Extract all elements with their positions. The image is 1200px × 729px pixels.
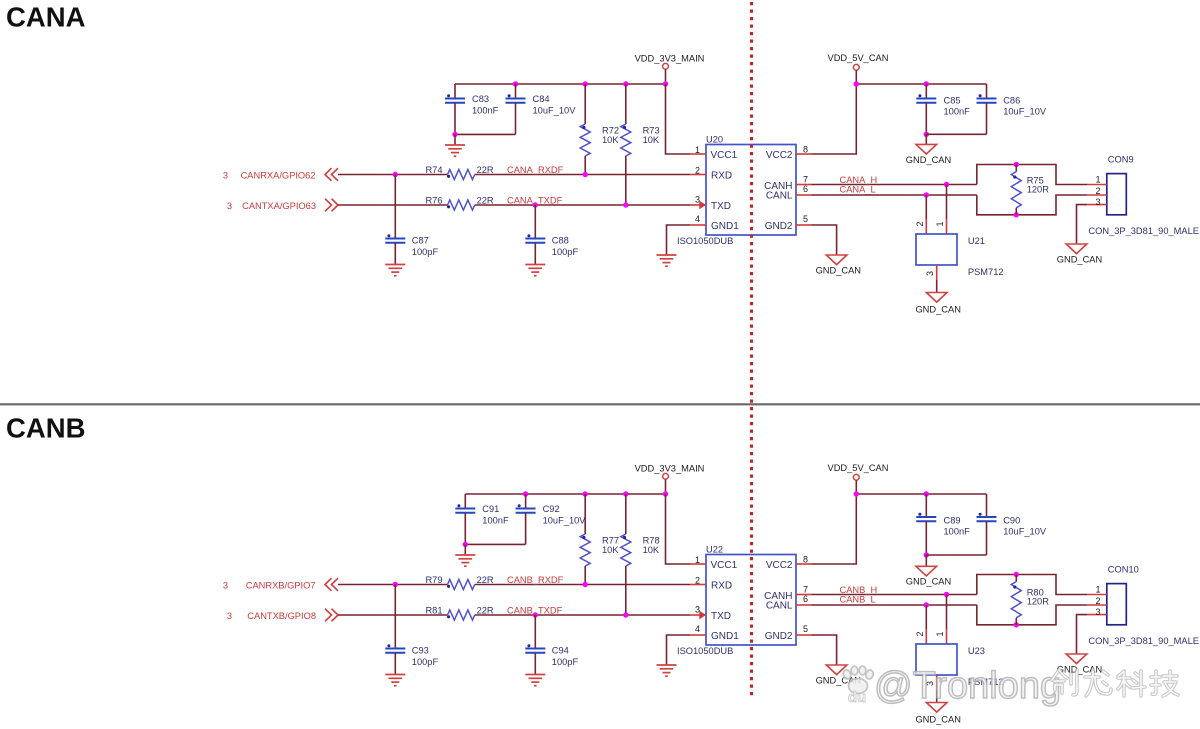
ground (earth) under C88 [525,265,545,276]
svg-text:6: 6 [803,184,808,194]
wire VCC2 to 5V rail [812,84,857,154]
capacitor C91 [455,494,509,544]
svg-text:VDD_5V_CAN: VDD_5V_CAN [828,463,889,473]
resistor R72 10K [580,84,619,175]
svg-text:CANTXB/GPIO8: CANTXB/GPIO8 [247,611,316,621]
U22 pin 2 [690,576,706,586]
svg-text:C86: C86 [1003,95,1020,105]
transient suppressor U23 PSM712 body [916,644,1004,687]
U22 pin 6 [796,594,812,605]
capacitor C85 [916,84,970,137]
wire net CANA_L [812,192,977,197]
svg-text:CANA_TXDF: CANA_TXDF [507,195,563,205]
svg-text:1: 1 [695,555,700,565]
svg-text:C90: C90 [1003,516,1020,526]
op-amp/IC U22 ISO1050DUB body [677,545,796,657]
svg-text:1: 1 [935,631,945,636]
svg-text:100pF: 100pF [412,247,439,257]
off-page flag CANRXA/GPIO62 [223,168,338,181]
wire VDD to VCC1 pin [666,494,691,564]
svg-text:3: 3 [223,580,228,590]
svg-text:7: 7 [803,585,808,595]
ground (earth) at U22 GND1 [657,665,677,676]
wire net CANB_RXDF [338,582,690,587]
svg-text:7: 7 [803,175,808,185]
wire CANA_H loop to connector pin 1 [977,162,1087,185]
ground (earth) under C83 [445,134,465,156]
svg-text:CANB_TXDF: CANB_TXDF [507,605,563,615]
svg-text:@Tronlong: @Tronlong [874,665,1061,707]
U22 pin 4 [690,624,706,635]
svg-text:10K: 10K [643,545,660,555]
svg-text:2: 2 [915,631,925,636]
svg-text:3: 3 [1095,607,1100,617]
svg-text:CANB_H: CANB_H [840,585,878,595]
svg-text:3: 3 [223,170,228,180]
svg-text:100nF: 100nF [944,106,971,116]
svg-text:U21: U21 [968,236,985,246]
U20 pin 2 [690,166,706,176]
svg-text:GND_CAN: GND_CAN [915,305,960,315]
svg-text:CANB_L: CANB_L [840,595,876,605]
svg-text:R81: R81 [425,606,442,616]
wire net CANA_RXDF [338,172,690,177]
net label CANA_H [840,175,878,185]
svg-text:CANL: CANL [766,601,793,612]
op-amp/IC U20 ISO1050DUB body [677,135,796,247]
resistor R80 120R [1011,575,1049,625]
svg-text:22R: 22R [477,196,494,206]
svg-text:10uF_10V: 10uF_10V [543,515,587,525]
svg-text:VDD_5V_CAN: VDD_5V_CAN [828,53,889,63]
ground (earth) under C94 [525,675,545,686]
resistor R73 10K [621,84,660,205]
svg-text:100nF: 100nF [472,105,499,115]
svg-text:3: 3 [227,611,232,621]
svg-text:2: 2 [1095,596,1100,606]
wire CANB_H loop to connector pin 1 [977,572,1087,595]
svg-text:5: 5 [803,214,808,224]
wire net CANB_L [812,602,977,607]
svg-text:100nF: 100nF [944,527,971,537]
svg-text:CANRXA/GPIO62: CANRXA/GPIO62 [241,170,316,180]
svg-text:CANA_H: CANA_H [840,175,878,185]
svg-text:R74: R74 [425,165,442,175]
svg-text:C93: C93 [412,646,429,656]
off-page flag CANTXB/GPIO8 [227,609,338,622]
svg-text:GND1: GND1 [711,221,739,232]
ground GND_CAN at U20 GND2 [816,255,861,276]
wire net CANB_H [812,592,977,597]
svg-text:8: 8 [803,145,808,155]
wire CANA_L to U21 pin 2 [915,195,927,234]
net label CANA_RXDF [507,165,564,175]
capacitor C92 [463,494,587,547]
net label CANB_L [840,595,876,605]
off-page flag CANTXA/GPIO63 [227,199,338,212]
capacitor C94 100pF [525,615,578,675]
svg-text:RXD: RXD [711,171,732,182]
svg-text:R76: R76 [425,196,442,206]
capacitor C83 [445,84,499,134]
section title CANB [6,413,85,444]
svg-text:CON9: CON9 [1108,155,1134,165]
wire GND1 to ground [667,635,691,665]
resistor R78 10K [621,494,660,615]
U21 pin 3 to GND_CAN [925,265,937,293]
section divider line [0,403,1200,405]
net label CANA_TXDF [507,195,563,205]
svg-text:GND2: GND2 [765,631,793,642]
off-page flag CANRXB/GPIO7 [223,578,338,591]
U20 pin 7 [796,175,812,185]
svg-text:22R: 22R [477,606,494,616]
svg-text:22R: 22R [477,575,494,585]
connector CON10 body [1107,565,1139,625]
U20 pin 4 [690,214,706,225]
wire 5V rail [854,81,987,86]
U20 pin 6 [796,184,812,195]
svg-text:CON_3P_3D81_90_MALE: CON_3P_3D81_90_MALE [1088,636,1199,646]
U20 pin names [711,150,793,232]
svg-text:3: 3 [695,195,700,205]
svg-text:3: 3 [1095,197,1100,207]
svg-text:2: 2 [695,166,700,176]
U22 pin 1 [690,555,706,565]
svg-text:R77: R77 [602,535,619,545]
svg-text:1: 1 [1095,585,1100,595]
svg-text:ISO1050DUB: ISO1050DUB [677,236,733,246]
svg-text:GND1: GND1 [711,631,739,642]
svg-text:CANTXA/GPIO63: CANTXA/GPIO63 [242,201,316,211]
svg-text:2: 2 [695,576,700,586]
net label CANB_RXDF [507,575,564,585]
power symbol VDD_5V_CAN (CANB) [828,463,889,494]
svg-text:VCC2: VCC2 [766,150,793,161]
svg-text:GND_CAN: GND_CAN [1057,255,1102,265]
U22 pin 5 [796,624,812,635]
wire 5V rail [854,491,987,496]
svg-text:C89: C89 [944,516,961,526]
ground GND_CAN at CON9 pin 3 [1057,244,1102,265]
svg-text:U20: U20 [706,135,723,145]
ground (earth) at U20 GND1 [657,255,677,266]
svg-text:U23: U23 [968,646,985,656]
U22 pin 7 [796,585,812,595]
resistor R74 22R [425,165,494,179]
ground GND_CAN at CON10 pin 3 [1057,654,1102,675]
svg-text:R72: R72 [602,125,619,135]
svg-text:10uF_10V: 10uF_10V [533,105,577,115]
resistor R75 120R [1011,165,1049,215]
svg-text:R73: R73 [643,125,660,135]
svg-text:VDD_3V3_MAIN: VDD_3V3_MAIN [635,54,705,64]
svg-text:VCC1: VCC1 [711,150,738,161]
svg-text:22R: 22R [477,165,494,175]
svg-text:GND_CAN: GND_CAN [915,715,960,725]
svg-text:GND_CAN: GND_CAN [906,577,951,587]
svg-text:R79: R79 [425,575,442,585]
wire CANB_L to U23 pin 2 [915,605,927,644]
U20 pin 3 with input arrow [690,195,706,210]
svg-text:1: 1 [935,221,945,226]
capacitor C87 100pF [385,175,438,265]
capacitor C84 [452,84,576,137]
svg-text:3: 3 [227,201,232,211]
capacitor C90 [926,494,1047,555]
svg-text:100nF: 100nF [482,515,509,525]
ground GND_CAN under U23 [915,703,960,725]
ground GND_CAN under C89 [906,555,951,587]
svg-text:C91: C91 [482,504,499,514]
svg-text:RXD: RXD [711,581,732,592]
U23 pin 3 to GND_CAN [925,675,937,703]
svg-text:TXD: TXD [711,201,731,212]
value label CON9 CON_3P_3D81_90_MALE [1088,226,1199,236]
svg-text:C84: C84 [533,94,550,104]
wire CANB_L loop to connector pin 2 [977,605,1087,628]
svg-text:10uF_10V: 10uF_10V [1003,106,1047,116]
svg-text:120R: 120R [1027,184,1050,194]
net label CANB_H [840,585,878,595]
CON9 pin 2 [1087,186,1107,196]
svg-text:CANA_RXDF: CANA_RXDF [507,165,564,175]
wire CANB_H to U23 pin 1 [935,595,947,645]
net label CANA_L [840,185,876,195]
resistor R79 22R [425,575,494,589]
svg-text:CANRXB/GPIO7: CANRXB/GPIO7 [246,580,316,590]
ground (earth) under C93 [385,675,405,686]
capacitor C89 [916,494,970,558]
svg-text:CANB: CANB [6,413,85,444]
capacitor C88 100pF [525,205,578,265]
svg-text:ISO1050DUB: ISO1050DUB [677,646,733,656]
svg-text:U22: U22 [706,545,723,555]
svg-text:120R: 120R [1027,596,1050,606]
svg-text:CANB_RXDF: CANB_RXDF [507,575,564,585]
connector CON9 body [1107,155,1134,215]
capacitor C86 [926,84,1047,134]
svg-text:GND_CAN: GND_CAN [816,266,861,276]
wire 3V3 rail [465,491,668,496]
ground (earth) under C91 [455,544,475,566]
power symbol VDD_5V_CAN (CANA) [828,53,889,84]
CON9 pin 1 [1087,175,1107,185]
U20 pin 5 [796,214,812,225]
ground GND_CAN under C85 [906,134,951,165]
ground GND_CAN under U21 [915,293,960,315]
wire GND1 to ground [667,225,691,255]
isolation barrier (red dotted line) [750,2,753,697]
svg-text:1: 1 [1095,175,1100,185]
svg-text:8: 8 [803,555,808,565]
svg-text:2: 2 [1095,186,1100,196]
U20 pin 1 [690,145,706,155]
svg-text:3: 3 [695,605,700,615]
svg-text:CON_3P_3D81_90_MALE: CON_3P_3D81_90_MALE [1088,226,1199,236]
svg-text:10K: 10K [602,135,619,145]
svg-text:R78: R78 [643,535,660,545]
wire GND2 to GND_CAN [812,635,837,665]
CON10 pin 3 to GND_CAN [1077,607,1107,654]
svg-text:1: 1 [695,145,700,155]
svg-text:100pF: 100pF [552,247,579,257]
wire net CANA_H [812,182,977,187]
U22 pin names [711,560,793,642]
svg-text:C85: C85 [944,95,961,105]
svg-text:C87: C87 [412,236,429,246]
CON9 pin 3 to GND_CAN [1077,197,1107,244]
wire VDD to VCC1 pin [666,84,691,154]
svg-text:du: du [848,689,866,706]
svg-text:VCC2: VCC2 [766,560,793,571]
svg-text:CANA_L: CANA_L [840,185,876,195]
svg-text:100pF: 100pF [552,657,579,667]
U20 pin 8 [796,145,812,155]
watermark @Tronlong logo [842,665,1178,707]
wire VCC2 to 5V rail [812,494,857,564]
power symbol VDD_3V3_MAIN (CANA) [635,54,705,85]
svg-text:10K: 10K [643,135,660,145]
net label CANB_TXDF [507,605,563,615]
svg-text:CANL: CANL [766,191,793,202]
svg-text:VCC1: VCC1 [711,560,738,571]
svg-text:4: 4 [695,214,700,224]
wire GND2 to GND_CAN [812,225,837,255]
svg-text:C92: C92 [543,504,560,514]
wire net CANA_TXDF [338,202,690,207]
svg-text:100pF: 100pF [412,657,439,667]
resistor R76 22R [425,196,494,210]
wire net CANB_TXDF [338,612,690,617]
CON10 pin 2 [1087,596,1107,606]
value label CON10 CON_3P_3D81_90_MALE [1088,636,1199,646]
svg-text:GND2: GND2 [765,221,793,232]
svg-text:TXD: TXD [711,611,731,622]
svg-text:CANA: CANA [6,2,86,33]
resistor R81 22R [425,606,494,620]
svg-text:10K: 10K [602,545,619,555]
ground (earth) under C87 [385,265,405,276]
capacitor C93 100pF [385,585,438,675]
section title CANA [6,2,86,33]
svg-text:10uF_10V: 10uF_10V [1003,527,1047,537]
U22 pin 3 with input arrow [690,605,706,620]
CON10 pin 1 [1087,585,1107,595]
svg-text:GND_CAN: GND_CAN [906,155,951,165]
svg-text:VDD_3V3_MAIN: VDD_3V3_MAIN [635,464,705,474]
svg-text:CON10: CON10 [1108,565,1139,575]
svg-text:C83: C83 [472,94,489,104]
svg-text:C94: C94 [552,646,569,656]
wire CANA_L loop to connector pin 2 [977,195,1087,218]
resistor R77 10K [580,494,619,585]
svg-text:3: 3 [925,271,935,276]
power symbol VDD_3V3_MAIN (CANB) [635,464,705,495]
wire 3V3 rail [455,81,668,86]
svg-text:4: 4 [695,624,700,634]
svg-text:C88: C88 [552,236,569,246]
ground GND_CAN at U22 GND2 [816,665,861,686]
svg-text:2: 2 [915,221,925,226]
svg-text:6: 6 [803,594,808,604]
wire CANA_H to U21 pin 1 [935,185,947,235]
U22 pin 8 [796,555,812,565]
svg-text:PSM712: PSM712 [968,267,1004,277]
transient suppressor U21 PSM712 body [916,234,1004,277]
svg-text:5: 5 [803,624,808,634]
